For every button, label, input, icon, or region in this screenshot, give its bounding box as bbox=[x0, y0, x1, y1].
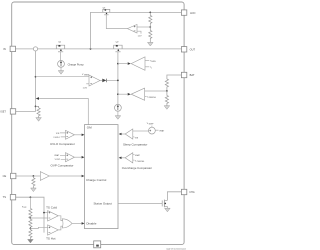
wire status drain to pin bbox=[167, 192, 181, 201]
current sense element bbox=[33, 47, 37, 51]
wire Q2 gate vertical bbox=[117, 52, 119, 105]
pin BAT bbox=[181, 72, 194, 77]
wire Q3 gate to LDO amp output bbox=[106, 15, 127, 29]
svg-text:Status Output: Status Output bbox=[94, 202, 113, 206]
resistor R6 CE pulldown bbox=[32, 176, 35, 188]
charge pump CP1 bbox=[58, 61, 85, 68]
svg-text:BAT: BAT bbox=[190, 73, 195, 77]
wire TS to cold comparator input bbox=[44, 212, 48, 214]
resistor R4 BAT divider upper bbox=[165, 79, 168, 91]
resistor R1 LDO divider upper bbox=[149, 12, 152, 25]
wire BAT pin branch bbox=[167, 75, 182, 79]
comparator U12 TS hot bbox=[46, 225, 58, 240]
svg-text:TS: TS bbox=[3, 195, 7, 199]
svg-text:V BAT: V BAT bbox=[54, 154, 60, 157]
node LDO divider top bbox=[149, 12, 151, 14]
svg-text:SHDN: SHDN bbox=[151, 61, 155, 63]
svg-text:CHG: CHG bbox=[189, 191, 194, 194]
svg-text:Overcharge Comparator: Overcharge Comparator bbox=[122, 166, 152, 170]
wire TS chain stem bbox=[29, 197, 31, 208]
wire TS pin bbox=[16, 197, 44, 232]
ground TS divider bbox=[28, 239, 34, 243]
wire gate to disable bbox=[72, 222, 84, 225]
wire Q1 gate to charge pump bbox=[60, 52, 62, 61]
pin TS bbox=[3, 195, 16, 200]
current source I1 bbox=[115, 104, 122, 111]
svg-text:OVP Comparator: OVP Comparator bbox=[51, 164, 74, 168]
wire to thermal comparator bbox=[118, 63, 128, 65]
diode D1 bbox=[102, 79, 106, 83]
node LDO feedback tap bbox=[149, 26, 151, 28]
comparator U9 overcharge bbox=[119, 153, 152, 170]
wire ISET pin to sense line bbox=[16, 106, 36, 111]
transistor Q4 status bbox=[162, 200, 167, 208]
resistor R3 ISET bbox=[36, 106, 41, 117]
svg-text:V BAT: V BAT bbox=[159, 130, 165, 133]
node gate-line diode junction bbox=[117, 80, 119, 82]
svg-text:GM: GM bbox=[87, 126, 92, 130]
wire riser to LDO rail bbox=[91, 12, 182, 49]
pin CHG bbox=[181, 189, 194, 194]
wire status source stem bbox=[166, 206, 168, 208]
svg-text:V BAT: V BAT bbox=[135, 154, 141, 157]
svg-text:UVLO Comparator: UVLO Comparator bbox=[50, 142, 75, 146]
wire LDO feedback bbox=[137, 26, 150, 28]
resistor R9 TS divider bbox=[29, 228, 32, 239]
wire comparator to BAT divider tap bbox=[145, 90, 167, 92]
node summing junction sleep bbox=[147, 123, 165, 134]
op-amp U2 current sense amp bbox=[82, 74, 100, 89]
op-amp U1 LDO error amp bbox=[127, 24, 137, 33]
comparator U6 UVLO bbox=[50, 130, 84, 146]
wire tap2 to TS hot bbox=[30, 227, 47, 228]
node TS tap 2 bbox=[30, 228, 32, 230]
wire charge pump lower stem bbox=[60, 67, 62, 70]
wire sense vertical bbox=[35, 51, 37, 106]
ground BAT divider bbox=[164, 106, 170, 110]
svg-text:Sleep Comparator: Sleep Comparator bbox=[123, 142, 147, 146]
svg-text:Charge Pump: Charge Pump bbox=[68, 62, 85, 66]
wire TS cold to gate bbox=[58, 216, 62, 221]
wire status output bbox=[118, 202, 162, 204]
svg-text:SLEEP: SLEEP bbox=[149, 124, 154, 126]
block U5 control core bbox=[85, 125, 119, 229]
wire amp out bbox=[100, 79, 102, 81]
comparator U4 overcharge sense bbox=[128, 88, 157, 100]
svg-text:1.0V: 1.0V bbox=[83, 87, 88, 89]
node thermal comparator junction bbox=[117, 63, 119, 65]
svg-text:OUT: OUT bbox=[190, 48, 196, 52]
svg-text:Charge Control: Charge Control bbox=[86, 178, 107, 182]
wire LDO amp ref stub bbox=[137, 31, 141, 33]
svg-text:LDO: LDO bbox=[190, 11, 195, 15]
wire diode to gate line bbox=[107, 79, 118, 81]
svg-text:CE: CE bbox=[3, 174, 7, 178]
ground current source bbox=[115, 116, 121, 120]
comparator U11 TS cold bbox=[46, 206, 58, 221]
resistor R2 LDO divider lower bbox=[149, 25, 152, 42]
wire TS hot to gate bbox=[58, 226, 62, 230]
svg-text:TS Cold: TS Cold bbox=[46, 206, 57, 210]
resistor R5 BAT divider lower bbox=[165, 91, 168, 106]
pin LDO bbox=[181, 10, 195, 15]
node ISET junction bbox=[35, 106, 37, 108]
svg-text:OVERCHG: OVERCHG bbox=[148, 97, 156, 99]
node BAT divider tap bbox=[166, 90, 168, 92]
wire CE pin bbox=[16, 175, 40, 177]
wire CE buffer to block bbox=[49, 175, 84, 178]
wire sense tap B with arrow bbox=[36, 97, 89, 125]
wire to overcharge comparator bbox=[118, 93, 128, 95]
transistor Q1 bbox=[56, 41, 64, 51]
IC boundary bbox=[12, 2, 184, 245]
wire tap1 to TS cold bbox=[30, 217, 47, 219]
wire main rail IN to OUT bbox=[16, 48, 182, 50]
ground CE pulldown bbox=[31, 188, 37, 192]
svg-text:Disable: Disable bbox=[86, 222, 96, 226]
svg-text:TS Hot: TS Hot bbox=[46, 236, 56, 240]
node TS tap 1 bbox=[30, 217, 32, 219]
resistor R8 TS divider bbox=[29, 218, 32, 228]
node TS chain junction bbox=[30, 196, 32, 198]
node overcharge comparator junction bbox=[117, 93, 119, 95]
resistor R7 TS divider bbox=[29, 208, 32, 218]
buffer U10 CE bbox=[40, 172, 49, 181]
node riser junction bbox=[90, 48, 92, 50]
node sense tap A bbox=[35, 76, 37, 78]
transistor Q2 bbox=[114, 41, 122, 51]
ground charge pump bbox=[58, 71, 64, 75]
svg-text:OVERCHG: OVERCHG bbox=[137, 161, 145, 163]
svg-text:V UVLO: V UVLO bbox=[53, 137, 60, 139]
pin CE bbox=[3, 173, 16, 178]
wire sense to amp bbox=[36, 76, 90, 78]
node CE pulldown junction bbox=[33, 175, 35, 177]
pin VSS bbox=[94, 241, 101, 248]
pin ISET bbox=[0, 109, 15, 114]
transistor Q3 bbox=[103, 8, 110, 15]
ground LDO divider bbox=[148, 42, 154, 46]
ground status transistor bbox=[165, 208, 171, 212]
svg-text:V OVP: V OVP bbox=[55, 159, 61, 161]
svg-text:ISET: ISET bbox=[0, 110, 6, 113]
svg-text:NTC: NTC bbox=[24, 207, 27, 209]
gate G1 OR bbox=[62, 219, 72, 228]
node TS input junction bbox=[43, 212, 45, 214]
pin IN bbox=[3, 46, 15, 51]
wire current source stem bbox=[117, 111, 119, 116]
svg-text:IN: IN bbox=[3, 47, 6, 51]
ground ISET bbox=[36, 118, 42, 122]
comparator U7 OVP bbox=[51, 153, 85, 168]
pin OUT bbox=[181, 47, 195, 52]
svg-text:SENSE: SENSE bbox=[84, 75, 89, 77]
comparator U3 thermal shutdown bbox=[128, 57, 156, 70]
comparator U8 sleep bbox=[119, 129, 149, 139]
